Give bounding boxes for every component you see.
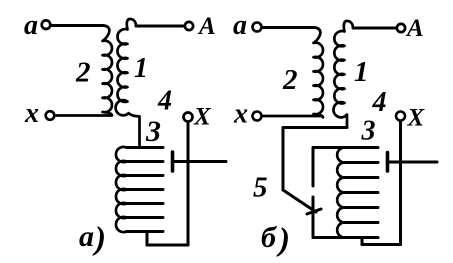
svg-text:5: 5 bbox=[253, 172, 268, 204]
svg-text:2: 2 bbox=[282, 64, 298, 96]
terminal X vertical wire bbox=[399, 122, 402, 245]
tap contact bar bbox=[171, 152, 175, 171]
terminal a circle bbox=[253, 23, 262, 32]
svg-text:а: а bbox=[233, 10, 247, 41]
winding 3 tap 3 bbox=[127, 174, 164, 177]
terminal x circle bbox=[46, 111, 55, 120]
winding 3 top tap (extended) bbox=[313, 146, 378, 149]
winding 3 tap 6 bbox=[346, 221, 378, 224]
switch lead wire bbox=[283, 128, 347, 191]
winding 3 bottom connector bbox=[146, 232, 149, 246]
winding 3 tap 6 bbox=[127, 216, 164, 219]
bottom lead to X bbox=[362, 243, 401, 246]
winding 2 bbox=[57, 26, 113, 116]
wire a to winding 2 bbox=[52, 24, 104, 27]
svg-text:1: 1 bbox=[354, 56, 369, 88]
winding 2 bbox=[263, 28, 323, 118]
wire A to winding 1 bbox=[353, 27, 396, 30]
svg-text:x: x bbox=[233, 99, 248, 130]
terminal A circle bbox=[185, 22, 193, 30]
svg-text:A: A bbox=[405, 15, 424, 42]
winding 3 tap 5 bbox=[127, 202, 164, 205]
terminal X vertical wire bbox=[187, 122, 190, 245]
terminal A circle bbox=[397, 24, 405, 32]
winding 3 tap 3 bbox=[346, 176, 378, 179]
winding 1 bbox=[116, 19, 140, 148]
upper fixed contact bbox=[312, 148, 315, 187]
terminal X circle bbox=[184, 113, 193, 122]
switch blade 5 bbox=[283, 190, 316, 212]
svg-text:3: 3 bbox=[361, 116, 376, 147]
svg-text:2: 2 bbox=[75, 57, 91, 89]
svg-text:A: A bbox=[197, 13, 216, 40]
tap contact arm bbox=[389, 161, 437, 164]
lower fixed contact bbox=[312, 197, 315, 238]
wire a to winding 2 bbox=[262, 26, 314, 29]
svg-text:X: X bbox=[407, 105, 426, 132]
tap contact bar bbox=[386, 153, 390, 172]
svg-text:1: 1 bbox=[134, 53, 148, 84]
svg-text:): ) bbox=[276, 222, 290, 258]
svg-text:а: а bbox=[79, 220, 94, 253]
winding 3 tap 5 bbox=[346, 206, 378, 209]
switch blade contact tick bbox=[307, 209, 321, 214]
svg-text:X: X bbox=[193, 104, 212, 131]
winding 3 bottom tap (extended) bbox=[313, 236, 378, 239]
tap contact arm bbox=[174, 160, 226, 163]
svg-text:3: 3 bbox=[145, 115, 161, 148]
terminal a circle bbox=[42, 20, 51, 29]
winding 3 loops bbox=[337, 147, 346, 237]
svg-text:4: 4 bbox=[157, 86, 172, 117]
svg-text:а: а bbox=[24, 10, 38, 41]
svg-text:x: x bbox=[24, 98, 39, 129]
winding 3 tap 2 bbox=[127, 160, 164, 163]
svg-text:4: 4 bbox=[372, 87, 387, 118]
winding 3 loops bbox=[116, 147, 127, 232]
winding 1 bbox=[333, 21, 353, 128]
winding 3 tap 1 bbox=[127, 146, 164, 149]
winding 3 tap 4 bbox=[127, 188, 164, 191]
bottom connector bbox=[361, 238, 364, 245]
terminal X circle bbox=[396, 112, 405, 121]
svg-text:): ) bbox=[92, 221, 106, 257]
svg-text:б: б bbox=[261, 221, 277, 254]
winding 3 tap 7 bbox=[127, 230, 164, 233]
winding 3 tap 2 bbox=[346, 161, 378, 164]
wire A to winding 1 bbox=[136, 25, 184, 28]
terminal x circle bbox=[253, 112, 262, 121]
bottom lead to X bbox=[147, 244, 188, 247]
winding 3 tap 4 bbox=[346, 191, 378, 194]
